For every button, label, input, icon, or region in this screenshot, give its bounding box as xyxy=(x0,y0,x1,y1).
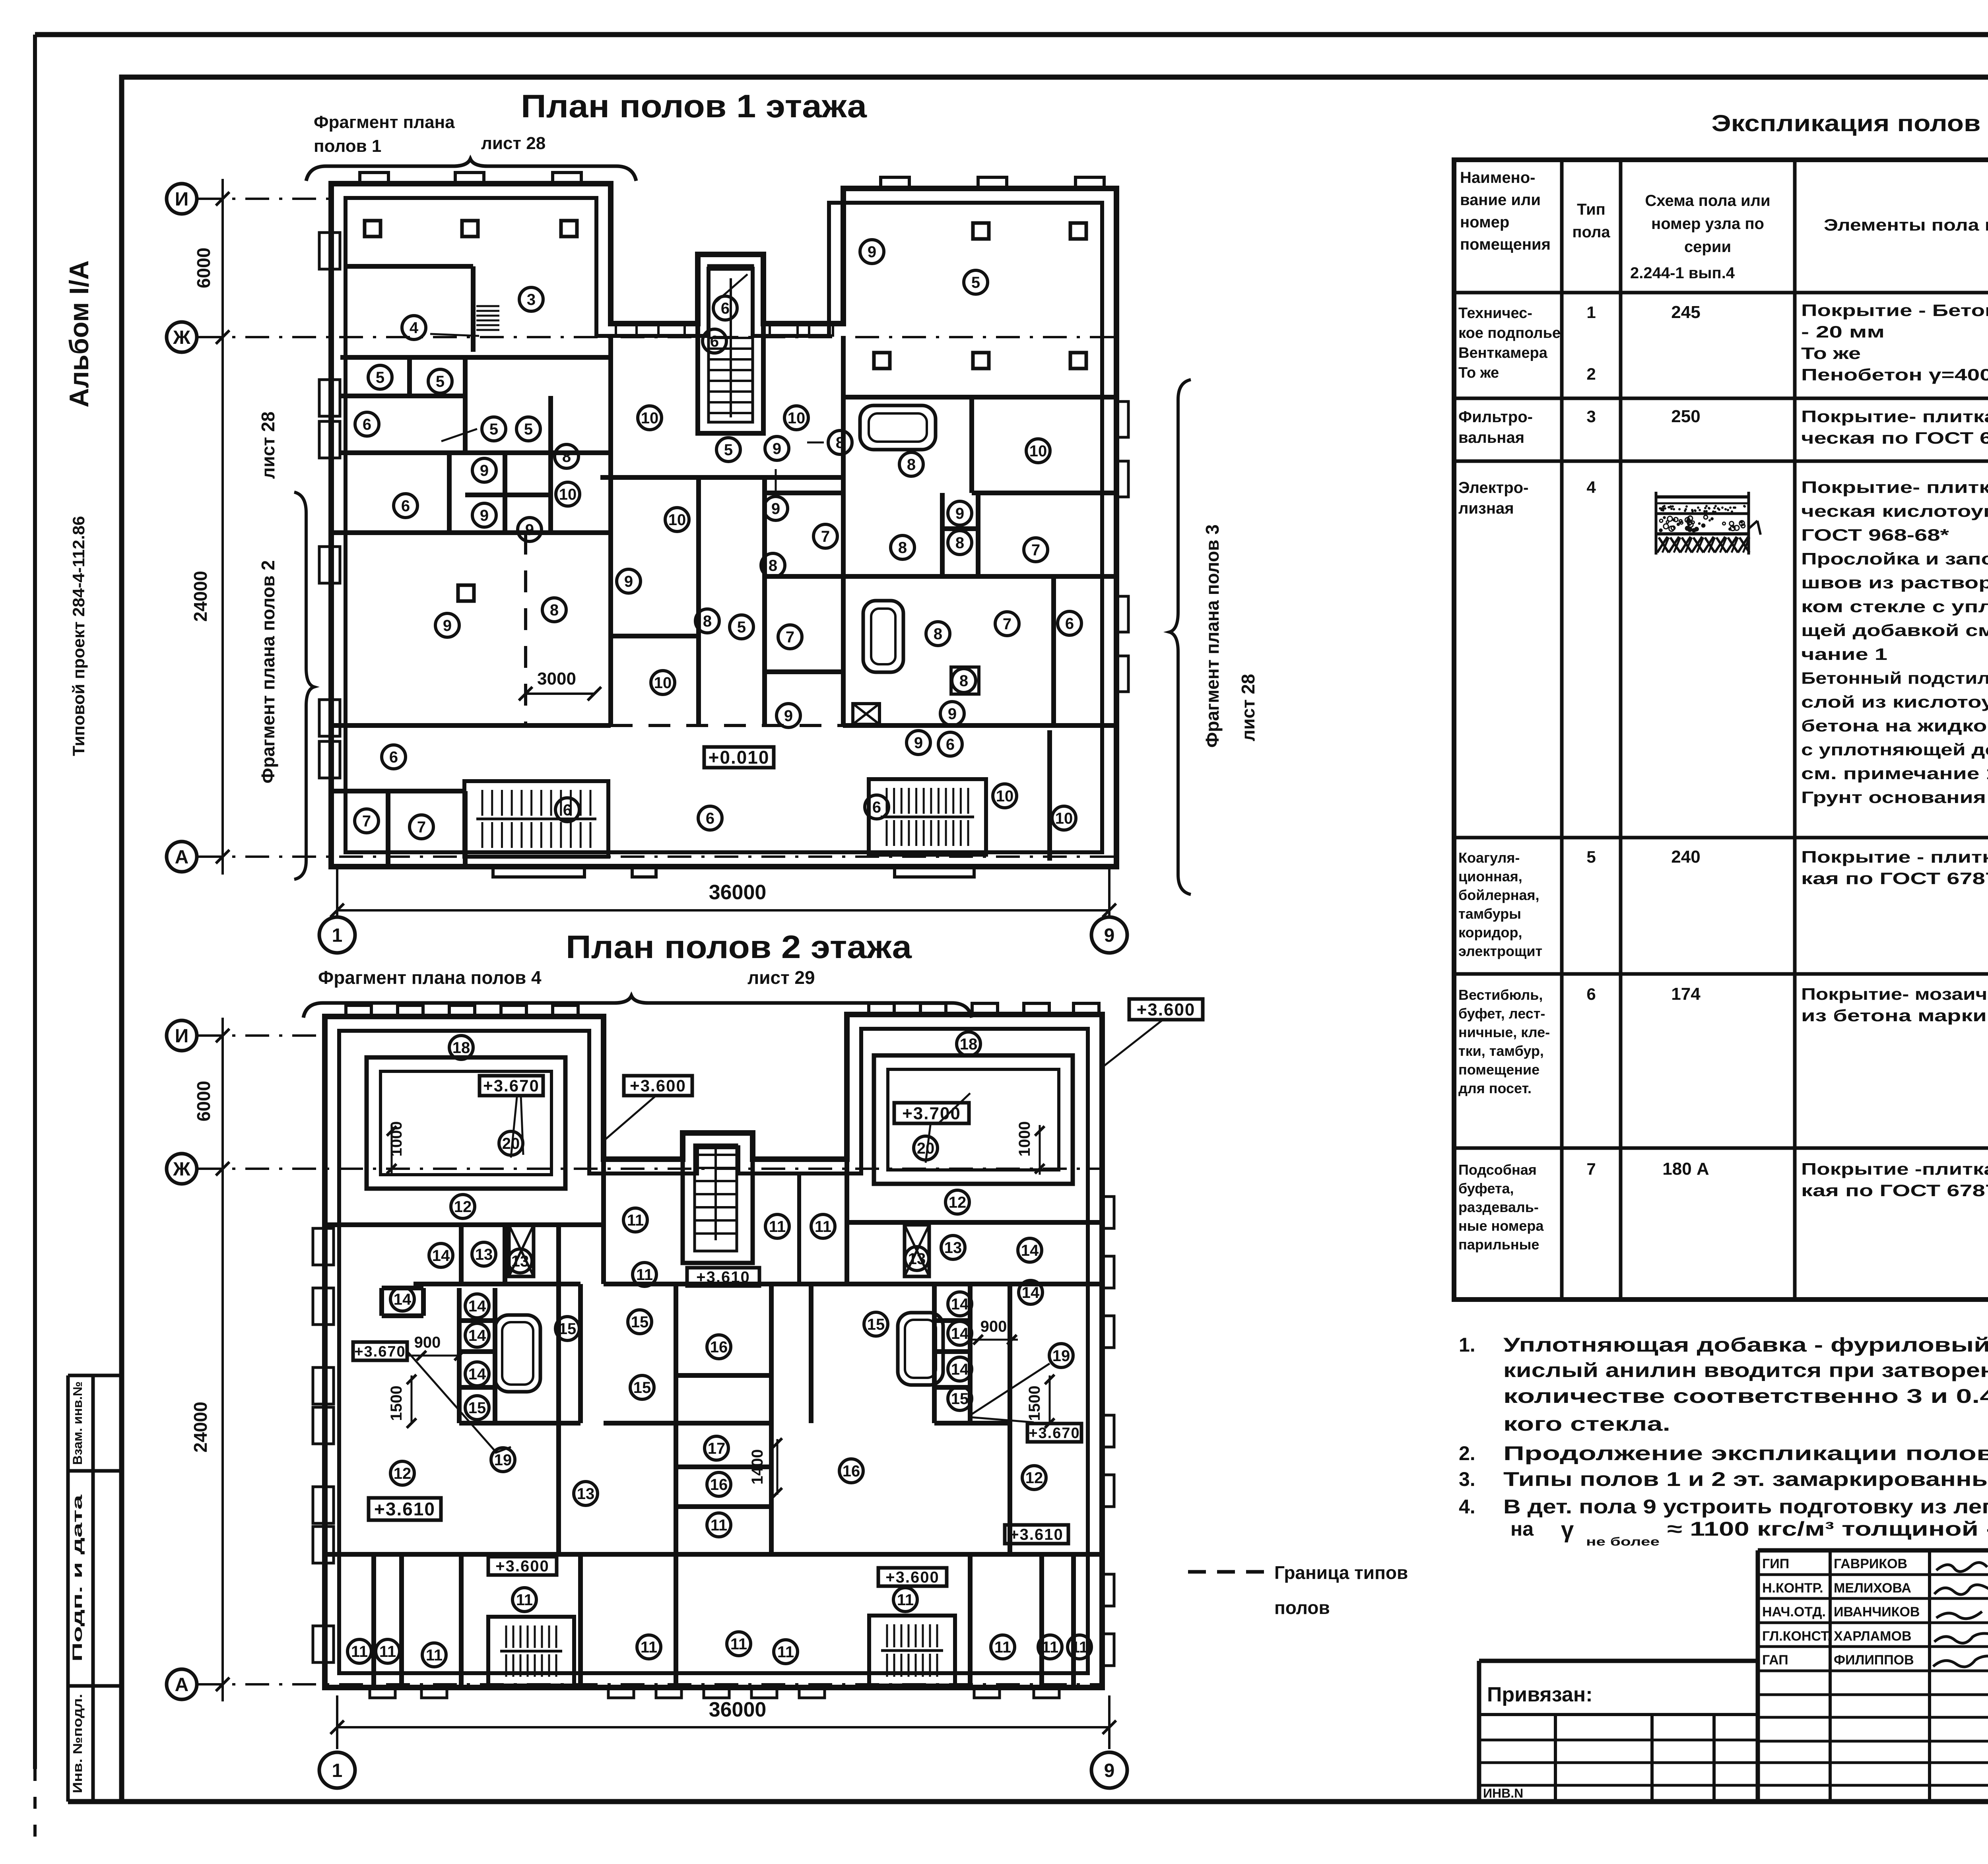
svg-text:+3.600: +3.600 xyxy=(1137,1000,1196,1019)
svg-text:серии: серии xyxy=(1684,238,1731,256)
wall xyxy=(934,1385,970,1390)
svg-text:9: 9 xyxy=(525,521,534,539)
wall xyxy=(471,266,476,352)
svg-text:коридор,: коридор, xyxy=(1458,924,1522,941)
svg-text:электрощит: электрощит xyxy=(1458,943,1542,959)
svg-text:Схема пола или: Схема пола или xyxy=(1645,192,1770,209)
svg-text:буфета,: буфета, xyxy=(1458,1180,1514,1197)
svg-text:ФИЛИППОВ: ФИЛИППОВ xyxy=(1834,1653,1914,1668)
plan1 small box room 8 xyxy=(951,667,979,694)
svg-text:Экспликация полов: Экспликация полов xyxy=(1712,111,1981,136)
room type circle 14 xyxy=(948,1357,972,1381)
room type circle 19 xyxy=(1049,1344,1073,1367)
window xyxy=(1116,461,1128,497)
pilaster xyxy=(398,1005,423,1016)
plan2 NW bath xyxy=(495,1315,540,1392)
svg-text:лист 28: лист 28 xyxy=(258,411,278,479)
wall xyxy=(1051,576,1056,725)
svg-text:900: 900 xyxy=(414,1334,441,1351)
room type circle 14 xyxy=(948,1292,972,1316)
svg-text:5: 5 xyxy=(436,373,445,390)
plan1 shaft with X xyxy=(853,704,879,724)
svg-text:номер: номер xyxy=(1460,213,1509,231)
svg-text:14: 14 xyxy=(951,1325,969,1342)
svg-text:10: 10 xyxy=(641,409,659,427)
wall xyxy=(1047,730,1052,861)
room type circle 20 xyxy=(914,1136,938,1160)
plan2 axis А xyxy=(167,1669,197,1699)
pilaster xyxy=(1102,1197,1114,1228)
svg-text:на: на xyxy=(1510,1518,1534,1540)
svg-text:11: 11 xyxy=(897,1591,914,1609)
svg-text:щей добавкой см. приме-: щей добавкой см. приме- xyxy=(1801,621,1988,640)
facade window xyxy=(809,325,833,336)
axis Ж xyxy=(167,322,197,352)
wall xyxy=(942,526,978,531)
room type circle 9 xyxy=(777,704,800,727)
svg-text:Наимено-: Наимено- xyxy=(1460,169,1535,186)
svg-text:8: 8 xyxy=(955,534,964,552)
window xyxy=(319,741,340,778)
plan1 right staircase xyxy=(869,779,986,855)
wall xyxy=(548,396,553,533)
svg-text:3: 3 xyxy=(1586,407,1596,426)
svg-text:9: 9 xyxy=(868,243,876,261)
pilaster xyxy=(1024,1003,1049,1014)
room type circle 7 xyxy=(1024,538,1048,562)
dashed type-border in room 9 xyxy=(524,533,527,725)
svg-text:кислый анилин вводится при: кислый анилин вводится при затворении ра… xyxy=(1503,1359,1988,1381)
wall xyxy=(843,395,1116,400)
wall xyxy=(463,357,468,453)
pilaster xyxy=(346,1005,371,1016)
svg-text:1: 1 xyxy=(332,925,343,946)
svg-text:Типовой проект 284-4-112.86: Типовой проект 284-4-112.86 xyxy=(69,516,88,756)
svg-text:Альбом I/А: Альбом I/А xyxy=(64,260,94,407)
svg-text:ционная,: ционная, xyxy=(1458,868,1522,884)
wall xyxy=(765,491,843,495)
room type circle 7 xyxy=(778,625,802,649)
room type circle 9 xyxy=(518,518,542,541)
svg-text:16: 16 xyxy=(710,1338,728,1356)
svg-text:10: 10 xyxy=(1029,442,1047,460)
svg-text:4.: 4. xyxy=(1459,1495,1475,1518)
svg-text:И: И xyxy=(175,189,189,210)
wall xyxy=(969,397,974,493)
plan2 NW shaft xyxy=(509,1225,534,1276)
wall xyxy=(503,1225,507,1284)
svg-text:6: 6 xyxy=(401,497,410,515)
room type circle 8 xyxy=(952,669,976,692)
svg-text:лист 29: лист 29 xyxy=(747,967,815,988)
svg-text:Граница типов: Граница типов xyxy=(1274,1562,1408,1583)
svg-text:17: 17 xyxy=(708,1440,726,1457)
room type circle 7 xyxy=(813,524,837,548)
svg-text:Вестибюль,: Вестибюль, xyxy=(1458,987,1543,1003)
svg-text:ГАП: ГАП xyxy=(1762,1653,1788,1668)
room type circle 14 xyxy=(429,1243,453,1267)
svg-text:буфет, лест-: буфет, лест- xyxy=(1458,1005,1545,1022)
wall xyxy=(762,477,767,725)
pilaster xyxy=(881,177,909,188)
wall xyxy=(459,1421,580,1426)
plan2 NE pool xyxy=(874,1055,1073,1184)
window xyxy=(751,1687,777,1698)
wall xyxy=(414,1282,580,1286)
svg-text:Фильтро-: Фильтро- xyxy=(1458,408,1533,426)
room type circle 5 xyxy=(516,417,540,441)
svg-text:18: 18 xyxy=(960,1036,978,1053)
svg-text:полов 1: полов 1 xyxy=(314,136,381,156)
room type circle 15 xyxy=(465,1396,489,1420)
svg-text:Фрагмент плана полов 4: Фрагмент плана полов 4 xyxy=(318,967,542,988)
window xyxy=(799,1687,825,1698)
svg-text:900: 900 xyxy=(980,1318,1007,1335)
facade window xyxy=(658,325,685,336)
window xyxy=(319,547,340,583)
room type circle 10 xyxy=(651,671,675,694)
window xyxy=(319,700,340,736)
svg-text:15: 15 xyxy=(867,1316,885,1333)
svg-text:15: 15 xyxy=(633,1379,651,1397)
svg-text:Покрытие -плитка керамичес-: Покрытие -плитка керамичес- xyxy=(1801,1160,1988,1178)
svg-text:Ж: Ж xyxy=(173,1159,190,1180)
svg-text:Подсобная: Подсобная xyxy=(1458,1162,1537,1178)
plan2 axis circle 1 xyxy=(319,1752,355,1788)
room type circle 5 xyxy=(482,417,506,441)
svg-text:6: 6 xyxy=(563,801,572,819)
svg-text:9: 9 xyxy=(784,707,793,725)
svg-text:ческая кислотоупорная по: ческая кислотоупорная по xyxy=(1801,502,1988,520)
svg-text:То же: То же xyxy=(1801,344,1861,363)
wall xyxy=(845,1159,849,1284)
floor scheme sketch xyxy=(1655,492,1658,555)
svg-text:Техничес-: Техничес- xyxy=(1458,305,1532,322)
svg-text:+3.670: +3.670 xyxy=(1029,1425,1080,1441)
svg-text:11: 11 xyxy=(627,1212,644,1229)
svg-text:ческая по ГОСТ 6787-80 - 13мм: ческая по ГОСТ 6787-80 - 13мм xyxy=(1801,429,1988,447)
window xyxy=(1034,1687,1059,1698)
room type circle 18 xyxy=(449,1036,473,1059)
svg-text:ГАВРИКОВ: ГАВРИКОВ xyxy=(1834,1556,1907,1571)
wall xyxy=(379,1288,384,1316)
svg-text:11: 11 xyxy=(351,1643,368,1660)
svg-text:вальная: вальная xyxy=(1458,429,1524,446)
room type circle 5 xyxy=(716,438,740,462)
pilaster xyxy=(449,1005,475,1016)
room type circle 15 xyxy=(555,1317,579,1340)
column xyxy=(973,353,989,369)
window xyxy=(421,1687,447,1698)
wall xyxy=(976,493,980,576)
svg-text:с уплотняющей добавкой: с уплотняющей добавкой xyxy=(1801,740,1988,759)
room type circle 16 xyxy=(839,1459,863,1483)
pilaster xyxy=(972,1003,998,1014)
svg-text:14: 14 xyxy=(951,1361,969,1378)
svg-text:1400: 1400 xyxy=(749,1449,766,1485)
pilaster xyxy=(920,1003,946,1014)
svg-text:5: 5 xyxy=(376,369,384,386)
window xyxy=(313,1367,334,1404)
room type circle 12 xyxy=(1022,1466,1046,1490)
wall xyxy=(674,1423,678,1554)
wall xyxy=(601,1159,606,1284)
svg-text:лист 28: лист 28 xyxy=(481,134,546,153)
wall xyxy=(340,394,465,398)
wall xyxy=(843,723,1116,728)
svg-text:То же: То же xyxy=(1458,365,1499,381)
column xyxy=(874,353,890,369)
svg-text:2.244-1 вып.4: 2.244-1 вып.4 xyxy=(1630,264,1735,282)
column xyxy=(1070,353,1086,369)
svg-text:15: 15 xyxy=(559,1320,577,1338)
svg-text:7: 7 xyxy=(417,819,426,836)
svg-text:3.: 3. xyxy=(1459,1468,1475,1490)
room type circle 11 xyxy=(376,1639,400,1663)
svg-text:240: 240 xyxy=(1671,847,1700,867)
wall xyxy=(932,1284,937,1423)
wall xyxy=(674,1554,678,1687)
svg-text:19: 19 xyxy=(1052,1347,1070,1365)
pilaster xyxy=(1102,1574,1114,1606)
svg-text:11: 11 xyxy=(641,1639,657,1656)
svg-text:вание или: вание или xyxy=(1460,191,1541,209)
svg-text:из бетона марки 200 - 20мм: из бетона марки 200 - 20мм xyxy=(1801,1006,1988,1025)
pilaster xyxy=(1102,1415,1114,1447)
wall xyxy=(334,530,611,535)
zigzag hatch band xyxy=(1657,537,1668,553)
svg-text:кая по ГОСТ 6787-80 - 13мм: кая по ГОСТ 6787-80 - 13мм xyxy=(1801,869,1988,888)
axis circle 1 xyxy=(336,917,338,918)
svg-text:14: 14 xyxy=(951,1296,969,1313)
wall xyxy=(421,1288,426,1316)
svg-text:кая по ГОСТ 6787-80 - 13мм: кая по ГОСТ 6787-80 - 13мм xyxy=(1801,1181,1988,1200)
pilaster xyxy=(1074,1003,1099,1014)
svg-text:14: 14 xyxy=(468,1298,486,1315)
plan2 axis circle 9 xyxy=(1091,1752,1127,1788)
svg-text:11: 11 xyxy=(1042,1639,1058,1656)
wall xyxy=(968,1554,973,1687)
svg-text:10: 10 xyxy=(668,511,686,529)
svg-text:9: 9 xyxy=(955,505,964,522)
room type circle 12 xyxy=(451,1195,475,1218)
room type circle 15 xyxy=(628,1310,652,1334)
svg-text:8: 8 xyxy=(959,672,968,690)
svg-text:7: 7 xyxy=(786,628,794,646)
signature table xyxy=(1758,1548,1988,1553)
svg-text:слой из кислотоупорного: слой из кислотоупорного xyxy=(1801,692,1988,711)
plan1 bath tub vertical xyxy=(863,601,903,672)
svg-text:+3.600: +3.600 xyxy=(495,1558,549,1575)
svg-text:Подп. и дата: Подп. и дата xyxy=(70,1494,85,1662)
plan2 central stair tower xyxy=(683,1133,753,1263)
svg-text:тамбуры: тамбуры xyxy=(1458,906,1521,922)
svg-text:4: 4 xyxy=(1586,478,1596,497)
wall xyxy=(578,1554,583,1687)
bottom dimension line 36000 xyxy=(337,909,1109,912)
room type circle 8 xyxy=(542,598,566,622)
svg-text:6: 6 xyxy=(363,416,371,433)
svg-text:7: 7 xyxy=(1003,615,1011,633)
room type circle 11 xyxy=(637,1635,661,1659)
svg-text:Прослойка и заполнение: Прослойка и заполнение xyxy=(1801,549,1988,568)
room type circle 9 xyxy=(617,569,641,593)
svg-text:11: 11 xyxy=(1071,1639,1088,1656)
window xyxy=(704,1687,729,1698)
pilaster xyxy=(553,173,581,184)
svg-text:5: 5 xyxy=(489,421,498,438)
svg-text:8: 8 xyxy=(769,557,777,574)
dim 3000 xyxy=(526,692,594,695)
svg-text:парильные: парильные xyxy=(1458,1236,1539,1253)
pilaster xyxy=(553,1005,578,1016)
svg-text:Ж: Ж xyxy=(173,327,190,348)
room type circle 14 xyxy=(465,1323,489,1347)
wall xyxy=(459,1385,495,1390)
svg-text:9: 9 xyxy=(443,617,452,634)
svg-text:Венткамера: Венткамера xyxy=(1458,345,1548,361)
window xyxy=(313,1407,334,1444)
axis А xyxy=(167,842,197,872)
window xyxy=(656,1687,681,1698)
room type circle 11 xyxy=(422,1643,446,1667)
svg-text:13: 13 xyxy=(908,1250,926,1268)
svg-text:Покрытие - Бетон марки 200-: Покрытие - Бетон марки 200- xyxy=(1801,301,1988,320)
svg-text:1000: 1000 xyxy=(1016,1121,1033,1157)
svg-text:бетона на жидком стекле: бетона на жидком стекле xyxy=(1801,716,1988,735)
svg-text:3: 3 xyxy=(527,291,536,308)
svg-text:11: 11 xyxy=(730,1635,747,1653)
svg-text:Уплотняющая добавка - фурилов: Уплотняющая добавка - фуриловый спирт и … xyxy=(1503,1334,1988,1356)
svg-text:8: 8 xyxy=(703,613,712,630)
room type circle 12 xyxy=(390,1461,414,1485)
room type circle 13 xyxy=(508,1249,532,1273)
wall xyxy=(382,1286,423,1290)
svg-text:10: 10 xyxy=(559,486,577,503)
wall xyxy=(676,1464,771,1469)
svg-text:16: 16 xyxy=(710,1476,728,1494)
room type circle 10 xyxy=(1026,439,1050,463)
room type circle 10 xyxy=(993,784,1017,808)
wall xyxy=(578,1284,583,1423)
svg-text:номер узла по: номер узла по xyxy=(1651,215,1764,233)
svg-text:7: 7 xyxy=(1586,1160,1596,1178)
svg-text:кого стекла.: кого стекла. xyxy=(1503,1413,1670,1435)
wall xyxy=(1039,1554,1044,1687)
wall xyxy=(604,1282,1102,1286)
svg-text:7: 7 xyxy=(1031,541,1040,559)
pilaster xyxy=(978,177,1007,188)
window xyxy=(608,1687,634,1698)
svg-text:24000: 24000 xyxy=(190,571,211,622)
svg-text:11: 11 xyxy=(426,1647,443,1664)
wall xyxy=(1071,1554,1076,1687)
room type circle 6 xyxy=(394,494,417,518)
brace under fragment label xyxy=(306,159,636,181)
room type circle 9 xyxy=(940,702,964,725)
legend: type border xyxy=(1188,1570,1268,1574)
svg-text:36000: 36000 xyxy=(709,1698,767,1721)
svg-text:8: 8 xyxy=(934,625,942,643)
svg-text:+3.610: +3.610 xyxy=(696,1269,750,1286)
wall xyxy=(346,264,473,269)
svg-text:лизная: лизная xyxy=(1458,500,1514,517)
svg-text:1.: 1. xyxy=(1459,1334,1475,1356)
svg-text:7: 7 xyxy=(821,528,830,545)
svg-text:Тип: Тип xyxy=(1577,201,1606,218)
pilaster xyxy=(360,173,388,184)
window xyxy=(319,421,340,458)
svg-text:ХАРЛАМОВ: ХАРЛАМОВ xyxy=(1834,1629,1912,1644)
svg-text:План полов 1 этажа: План полов 1 этажа xyxy=(521,88,868,124)
svg-text:14: 14 xyxy=(468,1366,486,1383)
elevation boxes plan2 xyxy=(480,1076,543,1096)
room type circle 11 xyxy=(727,1632,751,1656)
svg-text:10: 10 xyxy=(788,409,806,427)
svg-text:5: 5 xyxy=(971,274,980,291)
plan2 left staircase xyxy=(488,1617,574,1686)
svg-text:см. примечание 1: см. примечание 1 xyxy=(1801,764,1988,783)
window xyxy=(313,1228,334,1265)
window xyxy=(370,1687,395,1698)
room type circle 11 xyxy=(513,1588,536,1612)
wall xyxy=(325,1552,1102,1557)
svg-text:Типы полов 1 и 2 эт. замарк: Типы полов 1 и 2 эт. замаркированны на л… xyxy=(1503,1468,1988,1490)
svg-text:13: 13 xyxy=(577,1485,595,1503)
svg-text:6: 6 xyxy=(706,810,714,827)
wall xyxy=(676,1421,771,1426)
svg-text:11: 11 xyxy=(777,1643,794,1661)
column xyxy=(1070,223,1086,239)
room type circle 19 xyxy=(491,1448,515,1472)
svg-text:3000: 3000 xyxy=(537,669,576,689)
wall xyxy=(611,634,699,638)
facade window xyxy=(616,325,637,336)
room type circle 7 xyxy=(995,612,1019,636)
svg-text:11: 11 xyxy=(379,1643,396,1660)
svg-text:8: 8 xyxy=(550,601,559,619)
room type circle 9 xyxy=(907,731,930,755)
svg-text:Продолжение экспликации по: Продолжение экспликации полов на листе 1… xyxy=(1503,1442,1988,1464)
room type circle 7 xyxy=(355,809,379,833)
svg-text:тки, тамбур,: тки, тамбур, xyxy=(1458,1043,1544,1059)
svg-text:Покрытие- плитка керами-: Покрытие- плитка керами- xyxy=(1801,478,1988,497)
wall xyxy=(459,1349,495,1354)
svg-text:8: 8 xyxy=(898,539,907,557)
svg-text:6000: 6000 xyxy=(193,248,214,288)
room type circle 15 xyxy=(630,1375,654,1399)
plan1 stair arrow xyxy=(716,274,747,302)
room type circle 6 xyxy=(1058,611,1081,635)
svg-text:14: 14 xyxy=(468,1327,486,1344)
svg-text:13: 13 xyxy=(944,1239,962,1257)
svg-text:помещение: помещение xyxy=(1458,1061,1540,1078)
room type circle 14 xyxy=(948,1321,972,1345)
svg-text:6: 6 xyxy=(946,736,955,753)
room type circle 10 xyxy=(784,406,808,430)
svg-text:кое подполье: кое подполье xyxy=(1458,325,1561,341)
plan2 axis Ж xyxy=(167,1154,197,1184)
plan2 rooms flanking tower xyxy=(797,1173,801,1284)
svg-text:+3.700: +3.700 xyxy=(902,1104,961,1123)
room type circle 14 xyxy=(465,1294,489,1318)
room type circle 11 xyxy=(707,1513,731,1537)
room type circle 14 xyxy=(390,1287,414,1311)
room type circle 8 xyxy=(761,553,785,577)
pilaster xyxy=(501,1005,526,1016)
svg-text:НАЧ.ОТД.: НАЧ.ОТД. xyxy=(1762,1604,1826,1620)
margin bottom table xyxy=(68,1374,122,1377)
